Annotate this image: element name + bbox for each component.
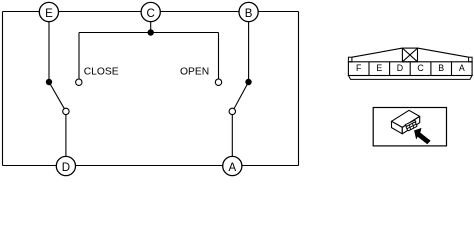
svg-text:F: F <box>356 63 362 73</box>
svg-text:A: A <box>228 162 236 174</box>
socket grid col divider 1 <box>409 125 410 129</box>
svg-text:D: D <box>62 162 70 174</box>
terminal C <box>141 2 160 21</box>
connector location box frame <box>373 108 446 146</box>
wire left side <box>2 12 4 166</box>
svg-text:D: D <box>397 63 403 73</box>
socket top sliver <box>405 120 416 126</box>
wire inner top <box>79 32 219 34</box>
terminal E <box>39 2 58 21</box>
svg-text:E: E <box>45 8 53 20</box>
cell divider D|C <box>409 62 411 76</box>
svg-text:B: B <box>438 63 444 73</box>
connector face view body row <box>348 62 472 76</box>
socket grid col divider 2 <box>413 124 414 128</box>
cell divider C|B <box>430 62 432 76</box>
connector bottom lip <box>348 76 472 80</box>
moving contact right <box>229 108 235 114</box>
cell divider E|D <box>389 62 391 76</box>
svg-text:E: E <box>376 63 382 73</box>
wire E to left pole <box>48 22 50 83</box>
wire C to junction <box>150 22 152 33</box>
pole dot right (B side) <box>245 79 251 85</box>
socket grid row divider <box>407 124 416 129</box>
svg-text:CLOSE: CLOSE <box>84 67 119 78</box>
locator arrow <box>414 128 431 144</box>
cell divider B|A <box>451 62 453 76</box>
switch blade right <box>234 82 249 109</box>
wire left contact to D <box>65 115 67 157</box>
socket front face <box>406 122 417 131</box>
OPEN contact circle <box>215 79 221 85</box>
junction dot under C <box>148 29 154 35</box>
terminal D <box>56 156 75 175</box>
svg-text:A: A <box>459 63 465 73</box>
connector 3d right face <box>402 116 419 133</box>
svg-text:C: C <box>147 8 155 20</box>
connector roof right slope <box>418 48 469 57</box>
svg-text:B: B <box>245 8 253 20</box>
connector 3d top face <box>392 110 420 127</box>
wire down to CLOSE contact <box>78 33 80 80</box>
cell divider F|E <box>368 62 370 76</box>
connector left latch tab <box>348 57 352 62</box>
moving contact left <box>63 108 69 114</box>
wire right side <box>298 12 300 166</box>
connector roof left slope <box>352 48 403 57</box>
svg-text:OPEN: OPEN <box>180 67 209 78</box>
connector 3d front face <box>392 121 403 134</box>
CLOSE contact circle <box>76 79 82 85</box>
connector right latch tab <box>469 57 473 62</box>
pole dot left (E side) <box>46 79 52 85</box>
terminal A <box>223 156 242 175</box>
wire down to OPEN contact <box>218 33 220 80</box>
terminal B <box>239 2 258 21</box>
svg-text:C: C <box>417 63 424 73</box>
wire right contact to A <box>231 115 233 157</box>
connector keying box with X <box>402 48 417 62</box>
wire bottom bus D-A <box>3 165 299 167</box>
wire top bus E-C-B <box>3 11 299 13</box>
switch blade left <box>49 82 64 109</box>
wire B to right pole <box>248 22 250 83</box>
